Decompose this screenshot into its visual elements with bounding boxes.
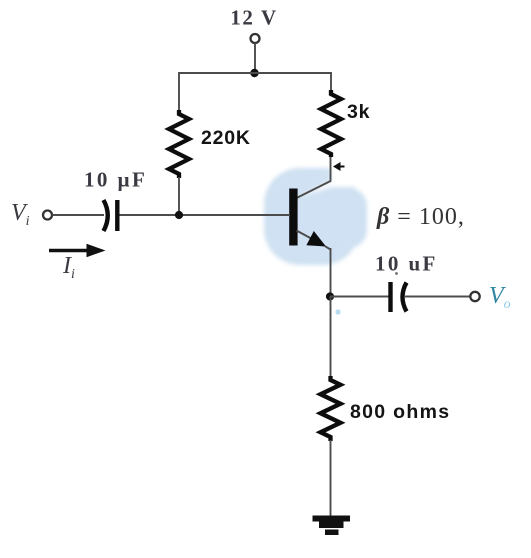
wire: input terminal to C1 [52,214,104,216]
ground [313,516,351,536]
transistor Q1 emitter lead with arrow [297,231,331,250]
svg-text:10 uF: 10 uF [375,252,438,276]
wire: RB to base node [178,177,180,215]
transistor Q1 base bar [289,189,297,246]
wire: C1 to base node [120,214,291,216]
collector polarity arrow [333,162,345,171]
svg-text:β = 100,: β = 100, [376,204,465,230]
node: base junction [175,211,183,219]
artifact blue speck near output node [335,309,340,314]
wire: C2 to Vo terminal [404,296,470,298]
svg-text:800 ohms: 800 ohms [350,401,450,423]
resistor RB 220K [169,110,189,178]
resistor RE 800 ohms [321,376,341,441]
wire: output node to C2 [330,296,389,298]
svg-text:10 µF: 10 µF [84,168,147,192]
wire: RC to collector bend [297,157,331,198]
wire: rail down to RB [178,72,180,111]
svg-text:12 V: 12 V [230,6,277,30]
svg-text:220K: 220K [201,127,251,149]
svg-text:Vi: Vi [11,200,30,229]
svg-text:3k: 3k [347,101,370,123]
wire: output node to RE [330,297,332,378]
resistor RC 3k [321,90,341,157]
supply terminal [251,34,260,43]
input current arrow Ii [49,244,106,257]
transistor highlight circle [264,158,382,265]
input terminal Vi [43,211,52,220]
artifact comma speck under output label [395,272,398,275]
wire: top rail [179,72,331,74]
svg-text:Ii: Ii [62,253,75,282]
capacitor C1 10uF [104,200,118,231]
wire: rail down to RC [330,72,332,91]
svg-text:Vo: Vo [489,283,511,312]
wire: emitter down to output node [330,248,332,297]
wire: supply terminal to top rail [254,43,256,73]
terminal Vo [470,292,479,301]
capacitor C2 10uF [391,282,407,312]
node: top rail junction [250,69,258,77]
wire: RE to ground [330,440,332,517]
node: emitter output junction [326,292,334,300]
